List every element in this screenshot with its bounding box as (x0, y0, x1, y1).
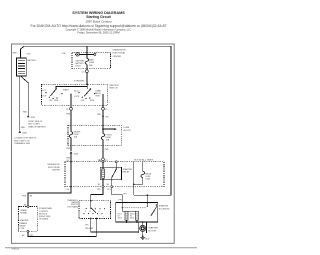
svg-text:ENABLE: ENABLE (20, 222, 28, 225)
powertrain control module box (dashed) (19, 207, 38, 232)
svg-text:RELAY: RELAY (20, 224, 27, 227)
svg-text:P: P (85, 211, 86, 213)
underhood electrical center main box (dashed) (65, 162, 164, 187)
ground at starter motor (140, 237, 145, 239)
splice S102 (27, 115, 30, 117)
svg-text:GAGES: GAGES (74, 130, 81, 133)
svg-text:PPL: PPL (85, 224, 89, 226)
pole2 contacts (78, 92, 79, 93)
svg-text:RED: RED (23, 111, 28, 113)
svg-text:B6: B6 (30, 196, 32, 198)
ignition switch pole 2 wiper (84, 89, 91, 97)
wire: pole2 start contact down (102, 95, 104, 108)
svg-text:WDG: WDG (130, 218, 135, 220)
splice S206 (70, 151, 73, 153)
svg-text:ACCY: ACCY (41, 89, 47, 92)
wire: relay contact output down (112, 180, 123, 203)
svg-text:CRANK: CRANK (20, 209, 27, 212)
svg-text:TRANSAXLE HSG: TRANSAXLE HSG (14, 142, 30, 145)
relay contact (115, 162, 117, 169)
wire to UHEC (70, 154, 72, 162)
connector C1 to UHEC (102, 158, 105, 161)
mega fuse circuit (133, 162, 145, 195)
svg-text:B1: B1 (67, 189, 69, 191)
svg-text:2 RED/WHT: 2 RED/WHT (74, 81, 85, 83)
svg-text:RUN: RUN (54, 100, 59, 102)
node: ignition feed entry (86, 84, 88, 86)
svg-text:IGNITION: IGNITION (109, 85, 119, 87)
svg-text:PNK: PNK (66, 113, 71, 115)
svg-text:MAXI: MAXI (89, 59, 94, 62)
PCM top pin (27, 206, 29, 208)
svg-text:BATTERY: BATTERY (28, 59, 37, 62)
svg-text:L: L (103, 216, 104, 218)
svg-text:10A: 10A (74, 136, 78, 139)
svg-text:STARTER: STARTER (159, 205, 169, 208)
svg-text:LOCK: LOCK (74, 96, 80, 98)
svg-text:MOTOR: MOTOR (148, 230, 156, 232)
starter solenoid box (116, 203, 158, 223)
svg-text:2 RD: 2 RD (62, 53, 67, 55)
svg-text:SWITCH: SWITCH (109, 88, 118, 90)
svg-text:S108: S108 (22, 133, 26, 135)
svg-text:ENG COMPT, ON: ENG COMPT, ON (14, 140, 30, 142)
svg-text:S102: S102 (31, 117, 35, 119)
svg-text:STARTER: STARTER (123, 168, 133, 171)
battery stud symbol (75, 53, 96, 56)
svg-text:2 RD: 2 RD (26, 54, 31, 56)
svg-text:C8: C8 (105, 160, 107, 162)
svg-text:UNDERHOOD: UNDERHOOD (47, 164, 60, 166)
connector C2 right (102, 107, 105, 110)
right fuse in fuse block (101, 125, 104, 145)
svg-text:C2: C2 (105, 109, 107, 111)
wire: B+ drop to solenoid B terminal (146, 195, 148, 202)
svg-text:SOLENOID: SOLENOID (159, 208, 170, 210)
wire: pnk pass-through UHEC (70, 161, 72, 163)
svg-text:ELECTRICAL: ELECTRICAL (113, 52, 127, 55)
wire: range switch output (90, 218, 92, 220)
connector C2 left (70, 107, 73, 110)
svg-text:PNK: PNK (66, 148, 71, 150)
pull-in winding (125, 211, 128, 220)
wire: pole1 start contact down (70, 94, 72, 107)
node: stud junction (86, 54, 88, 56)
svg-text:SYSTEM WIRING DIAGRAMS: SYSTEM WIRING DIAGRAMS (72, 11, 125, 15)
node: B+ junction at starter solenoid feed (146, 194, 148, 196)
svg-text:B4: B4 (107, 184, 109, 186)
diagram frame (12, 44, 175, 243)
svg-text:WDG: WDG (118, 218, 123, 220)
solenoid linkage dashed (122, 207, 146, 209)
svg-text:B4: B4 (22, 235, 24, 237)
svg-text:HOT AT ALL TIMES: HOT AT ALL TIMES (134, 158, 154, 161)
svg-text:Friday, December 08, 2000 12:: Friday, December 08, 2000 12:29PM (77, 31, 119, 35)
fuse block box (dashed) (68, 125, 121, 145)
svg-text:RELAY: RELAY (123, 171, 130, 174)
svg-text:BATTERY: BATTERY (75, 62, 84, 65)
svg-text:C1: C1 (82, 71, 84, 73)
svg-text:START: START (63, 89, 70, 92)
svg-text:ACCY: ACCY (74, 90, 80, 93)
wire: PCM output to range switch (28, 219, 96, 237)
svg-text:ENG COMPT,: ENG COMPT, (28, 124, 40, 126)
starter motor bracket (139, 222, 147, 233)
svg-text:1997 Buick Century: 1997 Buick Century (85, 20, 112, 24)
svg-text:OF DASH): OF DASH) (39, 218, 48, 221)
svg-text:POWERTRAIN: POWERTRAIN (39, 207, 52, 210)
svg-text:LOCK: LOCK (41, 96, 47, 98)
svg-text:97B313: 97B313 (12, 248, 20, 250)
splice S108 (19, 131, 22, 133)
wire: relay coil output down (91, 178, 103, 201)
svg-text:PNK: PNK (22, 196, 27, 198)
wire: pass-through down to PCM (28, 187, 71, 207)
connector C1 below top box (86, 69, 88, 70)
svg-text:YEL: YEL (105, 116, 109, 118)
starter relay (100, 167, 132, 179)
svg-text:S206: S206 (74, 154, 78, 156)
wire: relay coil feed entering UHEC (102, 161, 104, 163)
battery B1 (17, 58, 37, 76)
svg-text:PPL: PPL (30, 235, 34, 237)
solenoid coil bus (122, 208, 137, 212)
svg-text:PPL: PPL (107, 189, 111, 191)
wire: battery positive to top rail and B+ down right side (21, 46, 172, 195)
svg-text:REAR OF BATTERY: REAR OF BATTERY (28, 125, 46, 128)
svg-text:A4: A4 (99, 159, 101, 162)
footer rule (5, 247, 197, 249)
svg-text:PPL: PPL (119, 199, 123, 201)
svg-text:RED: RED (21, 127, 26, 129)
pole1 contacts (45, 92, 46, 93)
wire continues to fuse block (70, 110, 72, 125)
svg-text:CENTER: CENTER (113, 56, 122, 58)
svg-text:STUD: STUD (75, 66, 81, 68)
svg-text:30A: 30A (89, 64, 93, 67)
svg-text:BLOCK: BLOCK (124, 130, 132, 132)
hold-in winding (135, 211, 138, 220)
ignition switch pole 1 wiper (50, 89, 56, 96)
svg-text:CTRL: CTRL (20, 228, 25, 230)
wire: left fuse output down (70, 145, 72, 151)
svg-text:STARTER: STARTER (20, 219, 29, 222)
svg-text:C2: C2 (66, 109, 68, 111)
left fuse in fuse block (69, 125, 72, 145)
svg-text:PPL: PPL (123, 194, 127, 196)
svg-text:R: R (90, 211, 92, 213)
wire: feed bus inside switch (56, 84, 87, 88)
transaxle range switch box (dashed) (79, 201, 111, 219)
underhood electrical center top box (dashed) (72, 52, 111, 68)
ignition switch box (dashed) (42, 84, 108, 105)
svg-text:125A: 125A (145, 178, 150, 181)
node: range switch feed (90, 200, 92, 202)
svg-text:10A: 10A (106, 139, 110, 142)
svg-text:N: N (94, 211, 95, 213)
wire: battery negative down left (19, 76, 21, 131)
svg-text:B2: B2 (98, 184, 100, 186)
svg-text:A6: A6 (24, 203, 26, 206)
wire: battery second cable to splice S102 (21, 77, 28, 116)
svg-text:PPL/WHT: PPL/WHT (85, 228, 94, 230)
svg-text:STARTER: STARTER (148, 227, 158, 230)
range switch contacts row1 (86, 208, 87, 209)
svg-text:OFF: OFF (49, 100, 54, 102)
svg-text:FUSE: FUSE (124, 127, 130, 129)
solenoid S input (121, 203, 123, 208)
svg-text:LOCATED LEFT SIDE OF: LOCATED LEFT SIDE OF (14, 137, 37, 140)
svg-text:PNK: PNK (105, 149, 110, 151)
svg-text:OFF: OFF (81, 100, 86, 102)
node: motor terminal on solenoid (142, 221, 144, 223)
svg-text:For DIAKOM-AUTO http://www.dia: For DIAKOM-AUTO http://www.diakom.ru Tag… (31, 24, 167, 28)
svg-text:PNK: PNK (97, 114, 102, 116)
maxifuse element (85, 54, 88, 68)
svg-text:B1: B1 (67, 160, 69, 162)
solenoid winding output pins (126, 221, 128, 223)
svg-text:MEGA: MEGA (145, 173, 151, 176)
svg-text:CENTER: CENTER (52, 170, 60, 172)
wire: right fuse output down (102, 145, 104, 158)
svg-text:RUN: RUN (90, 100, 95, 102)
wire: motor to ground (142, 232, 144, 237)
svg-text:RED: RED (13, 53, 18, 55)
wire: rail drop to battery stud (86, 46, 88, 54)
svg-text:SIGNAL: SIGNAL (20, 212, 27, 215)
range switch wiper (90, 201, 92, 208)
svg-text:D: D (99, 211, 101, 213)
node: splice on yel wire (102, 115, 104, 117)
starter motor (140, 222, 159, 232)
svg-text:TEST: TEST (95, 95, 101, 97)
svg-text:ELECTRICAL: ELECTRICAL (48, 166, 60, 169)
svg-text:G102: G102 (145, 238, 149, 240)
range switch contacts row2 (83, 213, 84, 214)
wire continues down (102, 110, 104, 125)
solenoid B terminal (146, 202, 148, 204)
svg-text:PPL: PPL (97, 189, 101, 191)
feed arrow right fuse (102, 128, 104, 130)
svg-text:RIGHT SIDE OF: RIGHT SIDE OF (28, 121, 43, 123)
svg-text:(ON TRANS): (ON TRANS) (67, 205, 78, 208)
solenoid contact arm (151, 207, 156, 215)
PCM bottom pin (27, 230, 29, 232)
svg-text:UNDERHOOD: UNDERHOOD (113, 49, 127, 51)
wire: stud fuse output to ignition switch (86, 73, 88, 85)
